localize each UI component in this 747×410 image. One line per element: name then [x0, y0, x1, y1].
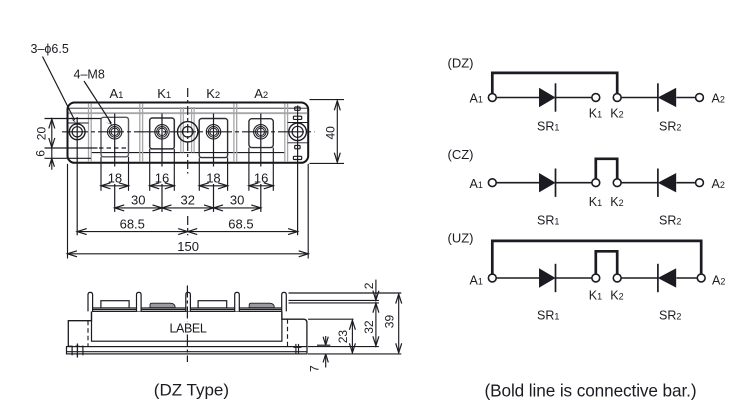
svg-text:K2: K2 [206, 86, 220, 101]
svg-text:3–ϕ6.5: 3–ϕ6.5 [31, 42, 69, 56]
dim 23 [351, 320, 353, 353]
rib left of right mounting boss [284, 103, 286, 162]
node A1 (CZ) [488, 179, 496, 187]
svg-text:(UZ): (UZ) [448, 231, 474, 246]
svg-text:6: 6 [33, 150, 47, 157]
svg-text:A2: A2 [712, 177, 725, 191]
dim 40 reference lines [310, 99, 345, 101]
ref line body top [308, 318, 354, 320]
left mounting boss edges [68, 122, 89, 124]
terminal block K2 [199, 119, 227, 158]
diode SR2 (DZ) [657, 83, 659, 111]
dim 16 (A2 block) [249, 185, 273, 187]
wire A1 to SR1 (UZ) [496, 277, 540, 279]
svg-text:K1: K1 [157, 86, 171, 101]
svg-text:18: 18 [108, 170, 122, 185]
wire SR1 to K1 (CZ) [556, 182, 593, 184]
body outline left [68, 311, 91, 346]
svg-text:7: 7 [307, 365, 321, 372]
ref line baseplate seat [308, 346, 379, 348]
baseplate [67, 347, 308, 354]
wire A1 to SR1 (DZ) [496, 97, 540, 99]
terminal post 3 [186, 292, 191, 311]
svg-text:2: 2 [362, 282, 376, 289]
raised block over K2 [198, 301, 227, 308]
bar terminal over K1 (gray) [150, 303, 175, 308]
vertical centreline centre hole (dash-dot) [187, 88, 189, 174]
wire K2 to SR2 (CZ) [621, 182, 658, 184]
node K2 (CZ) [613, 179, 621, 187]
wire K2 to SR2 (UZ) [621, 277, 658, 279]
small moulding marks on right boss [295, 107, 300, 110]
svg-text:K2: K2 [610, 106, 623, 120]
terminal screw K1 [155, 125, 169, 139]
svg-text:20: 20 [35, 127, 49, 141]
dim 68.5 right [188, 231, 298, 233]
screw centreline K2 [213, 114, 215, 167]
ref line bottom [308, 353, 401, 355]
svg-text:(Bold line is connective bar.): (Bold line is connective bar.) [485, 380, 697, 400]
bottom band line [91, 152, 284, 154]
svg-text:A1: A1 [470, 92, 483, 106]
node K2 (UZ) [613, 274, 621, 282]
top moulding band (gray) [69, 112, 308, 114]
svg-text:68.5: 68.5 [120, 216, 145, 231]
dim 18 (A1 block) [101, 185, 129, 187]
svg-text:(DZ): (DZ) [448, 56, 474, 71]
svg-text:23: 23 [336, 330, 350, 344]
hidden edge left (dashed) [87, 321, 89, 347]
svg-text:A1: A1 [110, 86, 124, 101]
rib between A1 and K1 [139, 103, 141, 162]
dim 2 [375, 280, 377, 301]
svg-text:(DZ Type): (DZ Type) [154, 380, 229, 399]
svg-text:16: 16 [155, 170, 169, 185]
dim 18 (K2 block) [199, 185, 227, 187]
svg-text:4–M8: 4–M8 [74, 68, 105, 82]
node A2 (CZ) [696, 179, 704, 187]
svg-text:SR2: SR2 [659, 308, 681, 322]
node K1 (CZ) [592, 179, 600, 187]
svg-text:150: 150 [177, 239, 199, 254]
node K2 (DZ) [613, 94, 621, 102]
svg-text:39: 39 [382, 315, 396, 329]
ref line terminal top [289, 292, 402, 294]
lid top surface [92, 307, 282, 309]
wire SR1 to K1 (DZ) [556, 97, 593, 99]
terminal block K1 [150, 118, 175, 149]
node A1 (UZ) [488, 274, 496, 282]
terminal screw A1 (M8) [108, 125, 122, 139]
terminal block A2 [249, 119, 273, 148]
dim 16 (K1 block) [150, 185, 175, 187]
terminal post 1 [88, 292, 93, 311]
dim 32 (K1-K2) [162, 207, 214, 209]
dim 32 [375, 303, 377, 346]
diode SR2 (CZ) [657, 169, 659, 197]
svg-text:SR1: SR1 [537, 214, 559, 228]
mounting hole left (3-phi6.5) [69, 124, 85, 140]
bar terminal over A2 (gray) [249, 303, 274, 308]
terminal block A1 [101, 117, 129, 157]
svg-text:SR1: SR1 [537, 308, 559, 322]
rib between K2 and A2 [233, 103, 235, 162]
terminal post 2 [137, 292, 142, 311]
svg-text:16: 16 [254, 170, 268, 185]
mounting hole mark left (side) [69, 344, 84, 358]
mounting hole centre [178, 122, 198, 142]
dim 68.5 left [77, 231, 188, 233]
wire SR2 to A2 (CZ) [676, 182, 696, 184]
svg-text:30: 30 [230, 193, 244, 208]
svg-text:A2: A2 [712, 92, 725, 106]
dim 6 [51, 148, 53, 158]
connective bar A1-K2 (DZ) [492, 73, 617, 94]
dim 39 [398, 294, 400, 353]
screw centreline A1 [114, 114, 116, 167]
screw centreline K1 [161, 114, 163, 167]
wire SR2 to A2 (DZ) [676, 97, 696, 99]
terminal post 5 [282, 292, 287, 311]
wire K2 to SR2 (DZ) [621, 97, 658, 99]
svg-text:32: 32 [362, 320, 376, 334]
node A1 (DZ) [488, 94, 496, 102]
screw centreline A2 [260, 114, 262, 167]
dim 20 reference lines [45, 118, 102, 120]
node A2 (DZ) [696, 94, 704, 102]
svg-text:A1: A1 [470, 273, 483, 287]
svg-text:SR2: SR2 [659, 120, 681, 134]
svg-text:K2: K2 [610, 195, 623, 209]
svg-text:A1: A1 [470, 177, 483, 191]
hidden edge (dashed) in A1 section [99, 147, 129, 149]
svg-text:LABEL: LABEL [170, 322, 207, 336]
svg-text:A2: A2 [254, 86, 268, 101]
svg-text:K1: K1 [589, 288, 602, 302]
terminal screw A2 [254, 125, 268, 139]
svg-text:68.5: 68.5 [228, 216, 253, 231]
svg-text:30: 30 [131, 193, 145, 208]
horizontal centreline [62, 131, 315, 133]
svg-text:18: 18 [206, 170, 220, 185]
connective bar K1-K2 (UZ) [596, 251, 617, 274]
module body outline (top view) [68, 103, 309, 163]
raised block over A1 [101, 301, 129, 308]
mounting hole right [289, 123, 307, 141]
body outline right [282, 311, 307, 346]
svg-text:(CZ): (CZ) [448, 147, 474, 162]
svg-text:K1: K1 [589, 195, 602, 209]
dim 30 (K2-A2) [214, 207, 261, 209]
wire SR2 to A2 (UZ) [676, 277, 697, 279]
node K1 (DZ) [592, 94, 600, 102]
dim 150 [68, 253, 309, 255]
svg-text:A2: A2 [712, 273, 725, 287]
ref lines lid top [289, 299, 379, 301]
dim 30 (A1-K1) [115, 207, 162, 209]
vertical centreline left hole [76, 117, 78, 235]
dim 20 [51, 119, 53, 148]
extension lines row1 (block edges) [101, 148, 273, 191]
vertical centreline right hole [297, 106, 299, 236]
wire A1 to SR1 (CZ) [496, 182, 540, 184]
terminal post 4 [235, 292, 240, 311]
svg-text:K2: K2 [610, 288, 623, 302]
svg-text:K1: K1 [589, 106, 602, 120]
rib left of A1 section [88, 103, 90, 162]
dim 40 [336, 101, 338, 162]
connective bar A1-A2 (UZ) [492, 241, 701, 275]
node K1 (UZ) [592, 274, 600, 282]
dim 7 [325, 336, 327, 345]
centre column edges [180, 107, 182, 153]
extension lines for 150 [67, 164, 69, 259]
node A2 (UZ) [697, 274, 705, 282]
diode SR1 (CZ) [540, 174, 555, 191]
centreline (side view) [186, 286, 188, 322]
diode SR1 (DZ) [540, 89, 555, 106]
svg-text:SR1: SR1 [537, 120, 559, 134]
hidden edge right (dashed) [287, 319, 289, 346]
diode SR1 (UZ) [540, 269, 555, 286]
wire SR1 to K1 (UZ) [556, 277, 593, 279]
connective bar K1-K2 (CZ) [596, 159, 617, 179]
mounting hole mark right (side) [293, 344, 301, 354]
lid front face (label area) [92, 311, 282, 341]
diode SR2 (UZ) [657, 264, 659, 292]
ref tick for dim 7 [317, 344, 330, 346]
svg-text:40: 40 [324, 126, 338, 140]
right mounting boss edges [288, 122, 308, 124]
terminal screw K2 [206, 125, 220, 139]
svg-text:32: 32 [181, 193, 195, 208]
svg-text:SR2: SR2 [659, 214, 681, 228]
lid inner edge line [69, 107, 308, 109]
